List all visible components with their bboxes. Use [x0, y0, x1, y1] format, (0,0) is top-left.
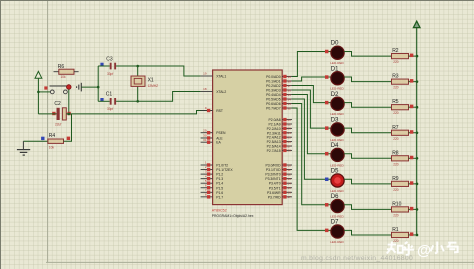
- wire D6 to R10: [344, 205, 391, 210]
- svg-text:P1.4: P1.4: [216, 182, 223, 186]
- pin 21 P2.0/A8: [282, 119, 292, 121]
- pin 27 P2.6/A14: [282, 145, 292, 147]
- svg-text:16: 16: [288, 191, 292, 195]
- svg-text:@: @: [417, 243, 431, 259]
- svg-text:LED-RED: LED-RED: [330, 87, 344, 91]
- svg-text:17: 17: [288, 195, 292, 199]
- svg-text:D6: D6: [331, 194, 339, 200]
- svg-text:LED-RED: LED-RED: [330, 138, 344, 142]
- pin 1 P1.0/T2: [201, 164, 213, 166]
- pin 13 P3.3/INT1: [282, 178, 292, 180]
- pin 11 P3.1/TXD: [282, 169, 292, 171]
- svg-text:14: 14: [288, 182, 292, 186]
- sheet border horizontal: [46, 261, 474, 263]
- svg-text:31: 31: [203, 138, 207, 142]
- svg-text:P3.5/T1: P3.5/T1: [269, 186, 281, 190]
- svg-text:P0.4/AD4: P0.4/AD4: [266, 93, 281, 97]
- svg-text:10k: 10k: [49, 146, 55, 150]
- svg-text:P3.6/WR: P3.6/WR: [267, 191, 281, 195]
- node junction bus/R5: [416, 106, 419, 109]
- wire C3 to XTAL1: [116, 66, 201, 76]
- svg-text:32: 32: [288, 106, 292, 110]
- LED D1: [331, 72, 344, 85]
- pin 39 P0.0/AD0: [282, 76, 292, 78]
- pin 8 P1.7: [201, 196, 213, 198]
- pin 31 EA: [201, 141, 213, 143]
- LED D3: [331, 123, 344, 136]
- svg-text:P3.3/INT1: P3.3/INT1: [265, 177, 280, 181]
- svg-text:PSEN: PSEN: [216, 131, 226, 135]
- wire D4 to R8: [344, 154, 391, 159]
- capacitor C2 (electrolytic): [52, 112, 55, 115]
- power VCC arrow (LED bus): [413, 21, 420, 27]
- node P0.1 net marker: [325, 75, 329, 79]
- svg-text:22uf: 22uf: [55, 122, 61, 126]
- LED D0: [331, 46, 344, 59]
- pin 36 P0.3/AD3: [282, 89, 292, 91]
- pin 15 P3.5/T1: [282, 187, 292, 189]
- node junction at button row: [37, 91, 40, 94]
- wire R4 to RST net: [64, 114, 72, 141]
- wire P0.0 to D0: [292, 52, 331, 77]
- svg-text:P1.2: P1.2: [216, 173, 223, 177]
- svg-text:220: 220: [393, 60, 399, 64]
- svg-text:220: 220: [393, 86, 399, 90]
- svg-text:220: 220: [393, 162, 399, 166]
- wire to button left terminal: [38, 91, 50, 93]
- svg-text:22: 22: [288, 122, 292, 126]
- node P0.5 net marker: [325, 178, 329, 182]
- pin 37 P0.2/AD2: [282, 85, 292, 87]
- wire D7 to R1: [344, 230, 391, 235]
- svg-text:19: 19: [203, 72, 207, 76]
- pin 10 P3.0/RXD: [282, 164, 292, 166]
- node junction bus/R3: [416, 80, 419, 83]
- pin 14 P3.4/T0: [282, 182, 292, 184]
- wire P0.5 to D5: [292, 99, 331, 179]
- pin 23 P2.2/A10: [282, 127, 292, 129]
- pin 18 XTAL2: [201, 91, 213, 93]
- svg-text:11: 11: [288, 168, 291, 172]
- svg-text:P1.5: P1.5: [216, 186, 223, 190]
- wire ground to caps common: [81, 86, 98, 88]
- svg-text:P0.7/AD7: P0.7/AD7: [266, 107, 281, 111]
- svg-text:P0.5/AD5: P0.5/AD5: [266, 98, 281, 102]
- svg-text:XTAL1: XTAL1: [216, 75, 226, 79]
- wire button to RST net: [68, 90, 70, 114]
- pin 7 P1.6: [201, 191, 213, 193]
- svg-text:R4: R4: [49, 133, 56, 139]
- node junction C2/button/R4: [68, 113, 71, 116]
- svg-text:25: 25: [288, 136, 292, 140]
- node P0.3 net marker: [325, 126, 329, 129]
- svg-text:28: 28: [288, 149, 292, 153]
- wire P0.4 to D4: [292, 95, 331, 154]
- svg-text:P3.2/INT0: P3.2/INT0: [265, 173, 280, 177]
- svg-text:D7: D7: [331, 220, 339, 226]
- node P0.6 net marker: [325, 203, 329, 207]
- pin 25 P2.4/A12: [282, 136, 292, 138]
- pin 29 PSEN: [201, 132, 213, 134]
- svg-text:37: 37: [288, 84, 292, 88]
- pin 16 P3.6/WR: [282, 191, 292, 193]
- svg-text:24: 24: [288, 131, 292, 135]
- svg-text:D4: D4: [331, 143, 339, 149]
- pin 26 P2.5/A13: [282, 141, 292, 143]
- svg-text:33pf: 33pf: [107, 107, 113, 111]
- svg-text:P2.3/A11: P2.3/A11: [267, 131, 281, 135]
- svg-text:P0.2/AD2: P0.2/AD2: [266, 84, 281, 88]
- LED D4: [331, 148, 344, 161]
- svg-text:220: 220: [393, 111, 399, 115]
- push button (reset): [44, 86, 47, 89]
- svg-text:P2.0/A8: P2.0/A8: [269, 118, 281, 122]
- svg-text:AT89C52: AT89C52: [212, 208, 227, 212]
- svg-text:P0.1/AD1: P0.1/AD1: [266, 80, 281, 84]
- pin 19 XTAL1: [201, 75, 213, 77]
- node junction bus/R9: [416, 183, 419, 186]
- svg-text:D0: D0: [331, 41, 339, 47]
- svg-text:P0.0/AD0: P0.0/AD0: [266, 75, 281, 79]
- node junction bus/R8: [416, 157, 419, 160]
- svg-text:C2: C2: [54, 101, 61, 107]
- svg-text:LED-RED: LED-RED: [330, 163, 344, 167]
- pin 38 P0.1/AD1: [282, 80, 292, 82]
- svg-text:220: 220: [393, 213, 399, 217]
- svg-text:P2.1/A9: P2.1/A9: [269, 123, 281, 127]
- wire D1 to R3: [344, 77, 391, 82]
- crystal X1: [137, 66, 139, 76]
- pin 12 P3.2/INT0: [282, 173, 292, 175]
- svg-text:P1.3: P1.3: [216, 177, 223, 181]
- svg-text:220: 220: [393, 188, 399, 192]
- svg-text:10: 10: [288, 163, 292, 167]
- svg-text:18: 18: [203, 87, 207, 91]
- svg-text:P2.4/A12: P2.4/A12: [267, 136, 281, 140]
- svg-text:33pf: 33pf: [107, 72, 113, 76]
- svg-text:LED-RED: LED-RED: [330, 189, 344, 193]
- svg-text:X1: X1: [148, 77, 154, 83]
- svg-text:21: 21: [288, 118, 292, 122]
- resistor R4: [41, 137, 44, 140]
- wire VCC bus vertical: [416, 28, 418, 235]
- svg-text:29: 29: [203, 128, 207, 132]
- svg-text:RST: RST: [216, 109, 223, 113]
- pin 9 RST: [201, 110, 213, 112]
- svg-text:C1: C1: [106, 92, 113, 98]
- sheet border vertical: [47, 1, 49, 262]
- IC U1 AT89C52 microcontroller body: [213, 70, 283, 205]
- svg-text:26: 26: [288, 140, 292, 144]
- svg-text:EA: EA: [216, 141, 221, 145]
- node junction ground tap: [97, 86, 100, 89]
- power VCC arrow (reset): [35, 71, 42, 78]
- wire D2 to R5: [344, 103, 391, 108]
- LED D6: [331, 199, 344, 212]
- svg-text:27: 27: [288, 144, 292, 148]
- wire D5 to R9: [344, 179, 391, 184]
- svg-text:R6: R6: [58, 64, 65, 70]
- LED D7: [331, 225, 344, 238]
- svg-text:P1.6: P1.6: [216, 191, 223, 195]
- svg-text:P1.1/T2EX: P1.1/T2EX: [216, 168, 233, 172]
- svg-text:D2: D2: [331, 92, 339, 98]
- svg-text:D3: D3: [331, 117, 339, 123]
- node P0.2 net marker: [325, 101, 329, 105]
- pin 30 ALE: [201, 137, 213, 139]
- wire C1 to XTAL2: [116, 92, 201, 102]
- pin 22 P2.1/A9: [282, 123, 292, 125]
- svg-text:P3.4/T0: P3.4/T0: [269, 182, 281, 186]
- svg-text:38: 38: [288, 79, 292, 83]
- wire D0 to R2: [344, 52, 391, 57]
- svg-text:P1.0/T2: P1.0/T2: [216, 164, 228, 168]
- wire P0.7 to D7: [292, 108, 331, 230]
- node junction bus/R2: [416, 55, 419, 58]
- wire RST net to chip: [66, 111, 212, 114]
- svg-text:PROGRAM1=Objds\A2.hex: PROGRAM1=Objds\A2.hex: [212, 214, 254, 218]
- wire caps common to C3: [98, 65, 110, 67]
- svg-text:LED-RED: LED-RED: [330, 61, 344, 65]
- pin 17 P3.7/RD: [282, 196, 292, 198]
- wire D3 to R7: [344, 128, 391, 133]
- pin 2 P1.1/T2EX: [201, 169, 213, 171]
- svg-text:220: 220: [393, 239, 399, 243]
- resistor R6: [54, 71, 59, 73]
- node junction bus/R7: [416, 131, 419, 134]
- node P0.0 net marker: [325, 50, 329, 54]
- pin 33 P0.6/AD6: [282, 103, 292, 105]
- wire P0.3 to D3: [292, 90, 331, 128]
- pin 28 P2.7/A15: [282, 149, 292, 151]
- svg-text:LED-RED: LED-RED: [330, 112, 344, 116]
- svg-text:P3.7/RD: P3.7/RD: [268, 195, 281, 199]
- svg-text:D1: D1: [331, 66, 339, 72]
- svg-text:P0.6/AD6: P0.6/AD6: [266, 102, 281, 106]
- svg-text:m.blog.csdn.net/weixin_4401680: m.blog.csdn.net/weixin_44016800: [301, 255, 413, 262]
- svg-text:23: 23: [288, 127, 292, 131]
- svg-text:P2.6/A14: P2.6/A14: [267, 145, 281, 149]
- svg-text:P1.7: P1.7: [216, 195, 223, 199]
- pin 3 P1.2: [201, 173, 213, 175]
- svg-text:C3: C3: [106, 56, 113, 62]
- pin 4 P1.3: [201, 178, 213, 180]
- pin 34 P0.5/AD5: [282, 98, 292, 100]
- node junction bus/R1: [416, 234, 419, 237]
- svg-text:P2.5/A13: P2.5/A13: [267, 140, 281, 144]
- svg-text:LED-RED: LED-RED: [330, 240, 344, 244]
- pin 6 P1.5: [201, 187, 213, 189]
- pin 24 P2.3/A11: [282, 132, 292, 134]
- svg-text:39: 39: [288, 75, 292, 79]
- svg-text:10k: 10k: [61, 75, 67, 79]
- wire ground to R4: [23, 140, 48, 142]
- svg-text:12: 12: [288, 172, 292, 176]
- LED D5: [331, 174, 344, 187]
- svg-text:XTAL2: XTAL2: [216, 90, 226, 94]
- watermark zhihu @xiaoma: [387, 242, 414, 255]
- wire caps common to C1: [98, 100, 110, 102]
- svg-text:P2.7/A15: P2.7/A15: [267, 149, 281, 153]
- pin 35 P0.4/AD4: [282, 94, 292, 96]
- svg-text:220: 220: [393, 137, 399, 141]
- pin 32 P0.7/AD7: [282, 107, 292, 109]
- node P0.4 net marker: [325, 152, 329, 156]
- svg-text:12MHZ: 12MHZ: [148, 84, 159, 88]
- wire VCC rail to C2: [38, 113, 56, 115]
- svg-text:33: 33: [288, 102, 292, 106]
- wire P0.2 to D2: [292, 86, 331, 103]
- wire P0.6 to D6: [292, 104, 331, 205]
- wire VCC arrow stem down to C2 row: [37, 78, 39, 114]
- ground (bottom left): [22, 141, 24, 149]
- node junction bus/R10: [416, 208, 419, 211]
- svg-text:36: 36: [288, 88, 292, 92]
- svg-text:P2.2/A10: P2.2/A10: [267, 127, 281, 131]
- node P0.7 net marker: [325, 229, 329, 233]
- svg-text:34: 34: [288, 97, 292, 101]
- svg-text:P3.0/RXD: P3.0/RXD: [266, 164, 282, 168]
- pin 5 P1.4: [201, 182, 213, 184]
- svg-text:15: 15: [288, 186, 292, 190]
- wire P0.1 to D1: [292, 77, 331, 81]
- svg-text:D5: D5: [331, 168, 339, 174]
- ground (rotated, crystal caps common): [80, 83, 82, 92]
- svg-text:13: 13: [288, 177, 292, 181]
- LED D2: [331, 97, 344, 110]
- svg-text:P3.1/TXD: P3.1/TXD: [266, 168, 281, 172]
- svg-text:LED-RED: LED-RED: [330, 214, 344, 218]
- wire caps common vertical: [97, 66, 99, 101]
- svg-text:P0.3/AD3: P0.3/AD3: [266, 89, 281, 93]
- svg-text:35: 35: [288, 93, 292, 97]
